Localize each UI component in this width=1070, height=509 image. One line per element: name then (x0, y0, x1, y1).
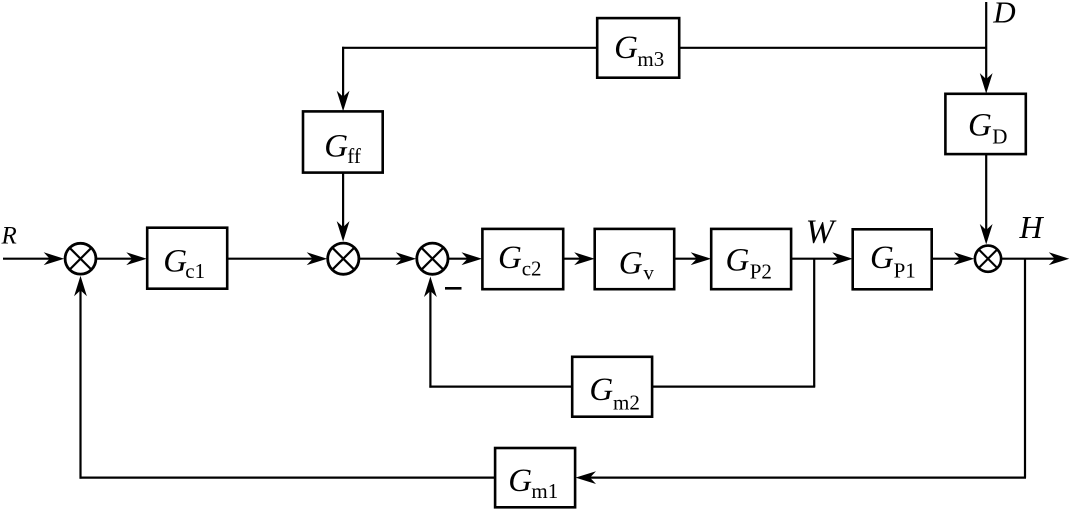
arrow into S1 from below (74, 276, 87, 297)
svg-text:ff: ff (347, 144, 361, 168)
summing junction S4 (975, 246, 1001, 272)
summing junction S3 (417, 243, 448, 274)
arrow into Gm1 (576, 471, 597, 484)
svg-text:G: G (614, 30, 638, 66)
wire Gc1 to S2 (227, 258, 314, 260)
wire H feedback horizontal (588, 477, 1026, 479)
svg-text:v: v (643, 260, 654, 284)
block Gff (303, 111, 383, 172)
svg-text:G: G (498, 240, 522, 276)
summing junction S2 (328, 243, 359, 274)
wire S4 to output (1001, 258, 1056, 260)
svg-text:G: G (968, 108, 992, 144)
wire GP2 to GP1 (791, 258, 840, 260)
wire up to S3 (429, 289, 431, 388)
arrow into S4 from above (980, 224, 993, 245)
svg-text:m2: m2 (613, 390, 640, 414)
wire Gm2 to corner (429, 386, 572, 388)
arrow into S2 (307, 252, 328, 265)
svg-text:m3: m3 (637, 47, 664, 71)
minus sign at S3 (445, 287, 462, 290)
svg-text:m1: m1 (531, 479, 558, 503)
svg-text:G: G (324, 128, 348, 164)
wire Gm1 to corner (80, 477, 496, 479)
svg-text:G: G (726, 243, 750, 279)
arrow into Gv (574, 252, 595, 265)
svg-text:G: G (870, 240, 894, 276)
block GD (945, 94, 1025, 154)
wire Gm3 to corner (342, 47, 597, 49)
svg-text:P2: P2 (750, 260, 772, 284)
svg-text:P1: P1 (894, 258, 916, 282)
arrow into Gff (337, 91, 350, 112)
wire H takeoff down (1024, 259, 1026, 478)
wire up to S1 (79, 288, 81, 479)
wire S2 to S3 (360, 258, 404, 260)
wire GP1 to S4 (932, 258, 961, 260)
arrow output H (1049, 252, 1070, 265)
svg-text:G: G (589, 372, 613, 408)
block Gm3 (597, 18, 679, 78)
wire S1 to Gc1 (97, 258, 134, 260)
arrow into S3 from below (424, 277, 437, 298)
block GP1 (853, 229, 932, 289)
arrow into Gc2 (462, 252, 483, 265)
arrow into GP2 (691, 252, 712, 265)
svg-text:c2: c2 (522, 257, 542, 281)
svg-text:W: W (806, 213, 837, 250)
wire Gff to S2 vertical (342, 173, 344, 230)
wire D input vertical (985, 2, 987, 81)
block Gc1 (147, 228, 227, 289)
wire Gc2 to Gv (563, 258, 582, 260)
wire D junction to Gm3 (679, 47, 986, 49)
block Gm1 (495, 448, 575, 507)
arrow into Gc1 (126, 252, 147, 265)
block GP2 (711, 229, 791, 289)
svg-text:G: G (508, 463, 532, 499)
block Gc2 (482, 229, 563, 289)
arrow into summing junction S1 (44, 252, 65, 265)
wire S3 to Gc2 (449, 258, 469, 260)
wire R input (3, 258, 52, 260)
svg-text:c1: c1 (185, 259, 205, 283)
svg-text:D: D (992, 0, 1015, 29)
svg-text:G: G (163, 244, 187, 280)
arrow into GD (980, 73, 993, 94)
svg-text:G: G (619, 246, 643, 282)
wire W takeoff down (813, 259, 815, 387)
arrow into S4 (954, 252, 975, 265)
wire W feedback horizontal to Gm2 (652, 386, 815, 388)
block Gv (595, 229, 675, 289)
arrow into GP1 (832, 252, 853, 265)
arrow into S2 from above (337, 221, 350, 242)
svg-text:D: D (992, 124, 1007, 148)
wire corner down to Gff (342, 47, 344, 99)
wire Gv to GP2 (674, 258, 698, 260)
svg-text:H: H (1019, 209, 1045, 245)
block Gm2 (572, 357, 652, 417)
summing junction S1 (65, 243, 96, 274)
wire GD to S4 vertical (985, 154, 987, 232)
svg-text:R: R (1, 223, 17, 250)
arrow into S3 (396, 252, 417, 265)
